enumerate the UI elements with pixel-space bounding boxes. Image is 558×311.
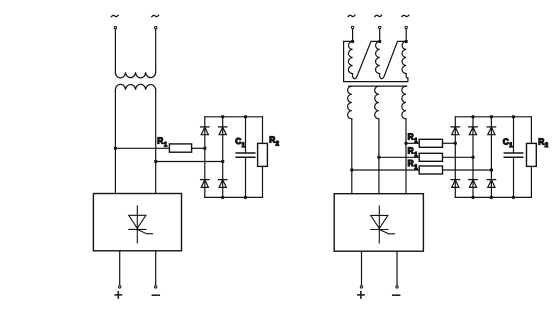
node bottom rail col B bbox=[221, 196, 224, 199]
thyristor module box U2 bbox=[334, 194, 423, 252]
svg-text:R: R bbox=[269, 135, 275, 145]
plus label right bbox=[358, 292, 364, 298]
diode VD10 bbox=[487, 180, 495, 188]
node bridge left column mid bbox=[203, 147, 206, 150]
transformer T2 secondary star rail bbox=[349, 85, 407, 87]
capacitor C1 right bottom lead bbox=[513, 157, 515, 197]
minus label right bbox=[393, 294, 400, 296]
resistor R2 right bottom lead bbox=[530, 166, 532, 197]
capacitor C1 right plates bbox=[504, 152, 522, 154]
transformer T2 primary coil phase A bbox=[348, 41, 379, 78]
wire R1c to bridge col3 bbox=[443, 169, 492, 171]
node bottom rail C1 right bbox=[512, 196, 515, 199]
diode VD1 bbox=[201, 127, 209, 135]
node top rail col3 bbox=[490, 115, 493, 118]
wire phase c to R1a bbox=[406, 142, 419, 144]
diode VD2 bbox=[219, 127, 227, 135]
node bridge right column mid bbox=[221, 160, 224, 163]
node junction on left secondary wire bbox=[114, 147, 117, 150]
wire terminal L1 to primary bbox=[114, 29, 116, 72]
svg-text:R: R bbox=[538, 136, 544, 146]
resistor R1b bbox=[419, 153, 442, 161]
node bottom rail col3 bbox=[490, 196, 493, 199]
transformer T2 primary coil phase B bbox=[376, 41, 407, 78]
wire phase b to R1b bbox=[379, 156, 419, 158]
resistor R1a bbox=[419, 139, 442, 147]
AC tilde symbol phase C bbox=[402, 15, 409, 16]
capacitor C1 right top lead bbox=[513, 117, 515, 153]
terminal L2 bbox=[155, 26, 157, 28]
svg-text:R: R bbox=[408, 131, 414, 141]
node branch phase c bbox=[404, 142, 407, 145]
capacitor C1 top lead bbox=[245, 117, 247, 153]
resistor R1 bbox=[169, 144, 191, 152]
terminal C bbox=[405, 26, 407, 28]
wire phase a down to module bbox=[351, 119, 353, 194]
bridge column A wire bbox=[204, 117, 206, 198]
resistor R1c bbox=[419, 166, 442, 174]
transformer T2 secondary coil a bbox=[348, 86, 352, 119]
resistor R2 bbox=[258, 143, 268, 166]
resistor R2 right top lead bbox=[530, 117, 532, 144]
svg-text:2: 2 bbox=[545, 143, 549, 149]
thyristor symbol VS1 bbox=[129, 206, 153, 243]
node bridge col2 mid bbox=[471, 156, 474, 159]
node delta corner C bbox=[405, 40, 408, 43]
terminal A bbox=[351, 26, 353, 28]
node top rail col2 bbox=[471, 115, 474, 118]
diode VD6 bbox=[469, 127, 477, 135]
AC tilde symbol phase B bbox=[375, 15, 382, 16]
terminal - circle bbox=[155, 286, 157, 288]
transformer T1 secondary winding bbox=[115, 84, 155, 90]
resistor R2 bottom lead bbox=[262, 166, 264, 197]
wire module U2 to + terminal bbox=[361, 251, 363, 285]
wire to R1 bbox=[115, 147, 169, 149]
thyristor symbol VS2 bbox=[371, 206, 395, 243]
resistor R2 top lead bbox=[262, 117, 264, 144]
terminal - right circle bbox=[396, 286, 398, 288]
wire module to - terminal bbox=[155, 251, 157, 286]
wire terminal A down bbox=[352, 29, 354, 42]
AC tilde symbol phase L2 bbox=[152, 15, 159, 16]
diode VD3 bbox=[201, 180, 209, 188]
wire terminal C down bbox=[405, 29, 407, 42]
diode VD8 bbox=[451, 180, 459, 188]
node top rail col B bbox=[221, 115, 224, 118]
AC tilde symbol phase A bbox=[348, 15, 355, 16]
bridge column B wire bbox=[222, 117, 224, 198]
diode VD7 bbox=[487, 127, 495, 135]
terminal L1 bbox=[114, 26, 116, 28]
svg-text:R: R bbox=[408, 145, 414, 155]
transformer T2 primary coil phase C bbox=[402, 41, 408, 78]
node delta corner A bbox=[351, 40, 354, 43]
terminal + right circle bbox=[360, 286, 362, 288]
bridge top rail right bbox=[455, 116, 531, 118]
bridge column 1 wire bbox=[454, 117, 456, 198]
wire R1b to bridge col2 bbox=[443, 156, 474, 158]
svg-text:1: 1 bbox=[509, 143, 513, 149]
node bridge col1 mid bbox=[454, 142, 457, 145]
bridge bottom rail right bbox=[455, 196, 531, 198]
node bottom rail C1 bbox=[244, 196, 247, 199]
node branch phase b bbox=[377, 156, 380, 159]
svg-text:2: 2 bbox=[276, 142, 280, 148]
svg-text:C: C bbox=[235, 136, 241, 146]
wire module U2 to - terminal bbox=[396, 251, 398, 285]
node branch phase a bbox=[350, 168, 353, 171]
svg-text:1: 1 bbox=[164, 143, 168, 149]
node bottom rail col2 bbox=[471, 196, 474, 199]
bridge bottom rail bbox=[205, 196, 263, 198]
terminal B bbox=[379, 26, 381, 28]
wire phase c down to module bbox=[405, 119, 407, 194]
bridge top rail bbox=[205, 116, 263, 118]
delta frame wire bbox=[344, 41, 408, 81]
resistor R2 right bbox=[527, 143, 537, 166]
plus label bbox=[115, 292, 121, 298]
wire phase b down to module bbox=[378, 119, 380, 194]
wire secondary left down to module bbox=[114, 90, 116, 194]
transformer T2 secondary coil b bbox=[375, 86, 379, 119]
transformer T1 primary winding bbox=[115, 72, 155, 78]
node top rail C1 bbox=[244, 115, 247, 118]
diode VD5 bbox=[451, 127, 459, 135]
thyristor module box U1 bbox=[93, 194, 181, 251]
terminal + circle bbox=[119, 286, 121, 288]
minus label bbox=[152, 294, 159, 296]
svg-text:R: R bbox=[408, 158, 414, 168]
bridge column 2 wire bbox=[472, 117, 474, 198]
node top rail C1 right bbox=[512, 115, 515, 118]
wire R1a to bridge col1 bbox=[443, 142, 456, 144]
wire module to + terminal bbox=[119, 251, 121, 286]
bridge column 3 wire bbox=[490, 117, 492, 198]
svg-text:C: C bbox=[503, 136, 509, 146]
wire secondary right down to module bbox=[155, 90, 157, 194]
capacitor C1 bottom lead bbox=[245, 157, 247, 197]
diode VD4 bbox=[219, 180, 227, 188]
node bridge col3 mid bbox=[490, 168, 493, 171]
node junction on right secondary wire bbox=[154, 160, 157, 163]
wire to bridge right column mid bbox=[156, 161, 223, 163]
node delta corner B bbox=[378, 40, 381, 43]
diode VD9 bbox=[469, 180, 477, 188]
wire terminal B down bbox=[379, 29, 381, 42]
svg-text:R: R bbox=[157, 136, 163, 146]
transformer T2 secondary coil c bbox=[402, 86, 406, 119]
wire R1 to bridge left column bbox=[192, 147, 205, 149]
wire terminal L2 to primary bbox=[155, 29, 157, 72]
AC tilde symbol phase L1 bbox=[111, 15, 118, 16]
wire phase a to R1c bbox=[352, 169, 419, 171]
capacitor C1 plates bbox=[236, 152, 255, 154]
